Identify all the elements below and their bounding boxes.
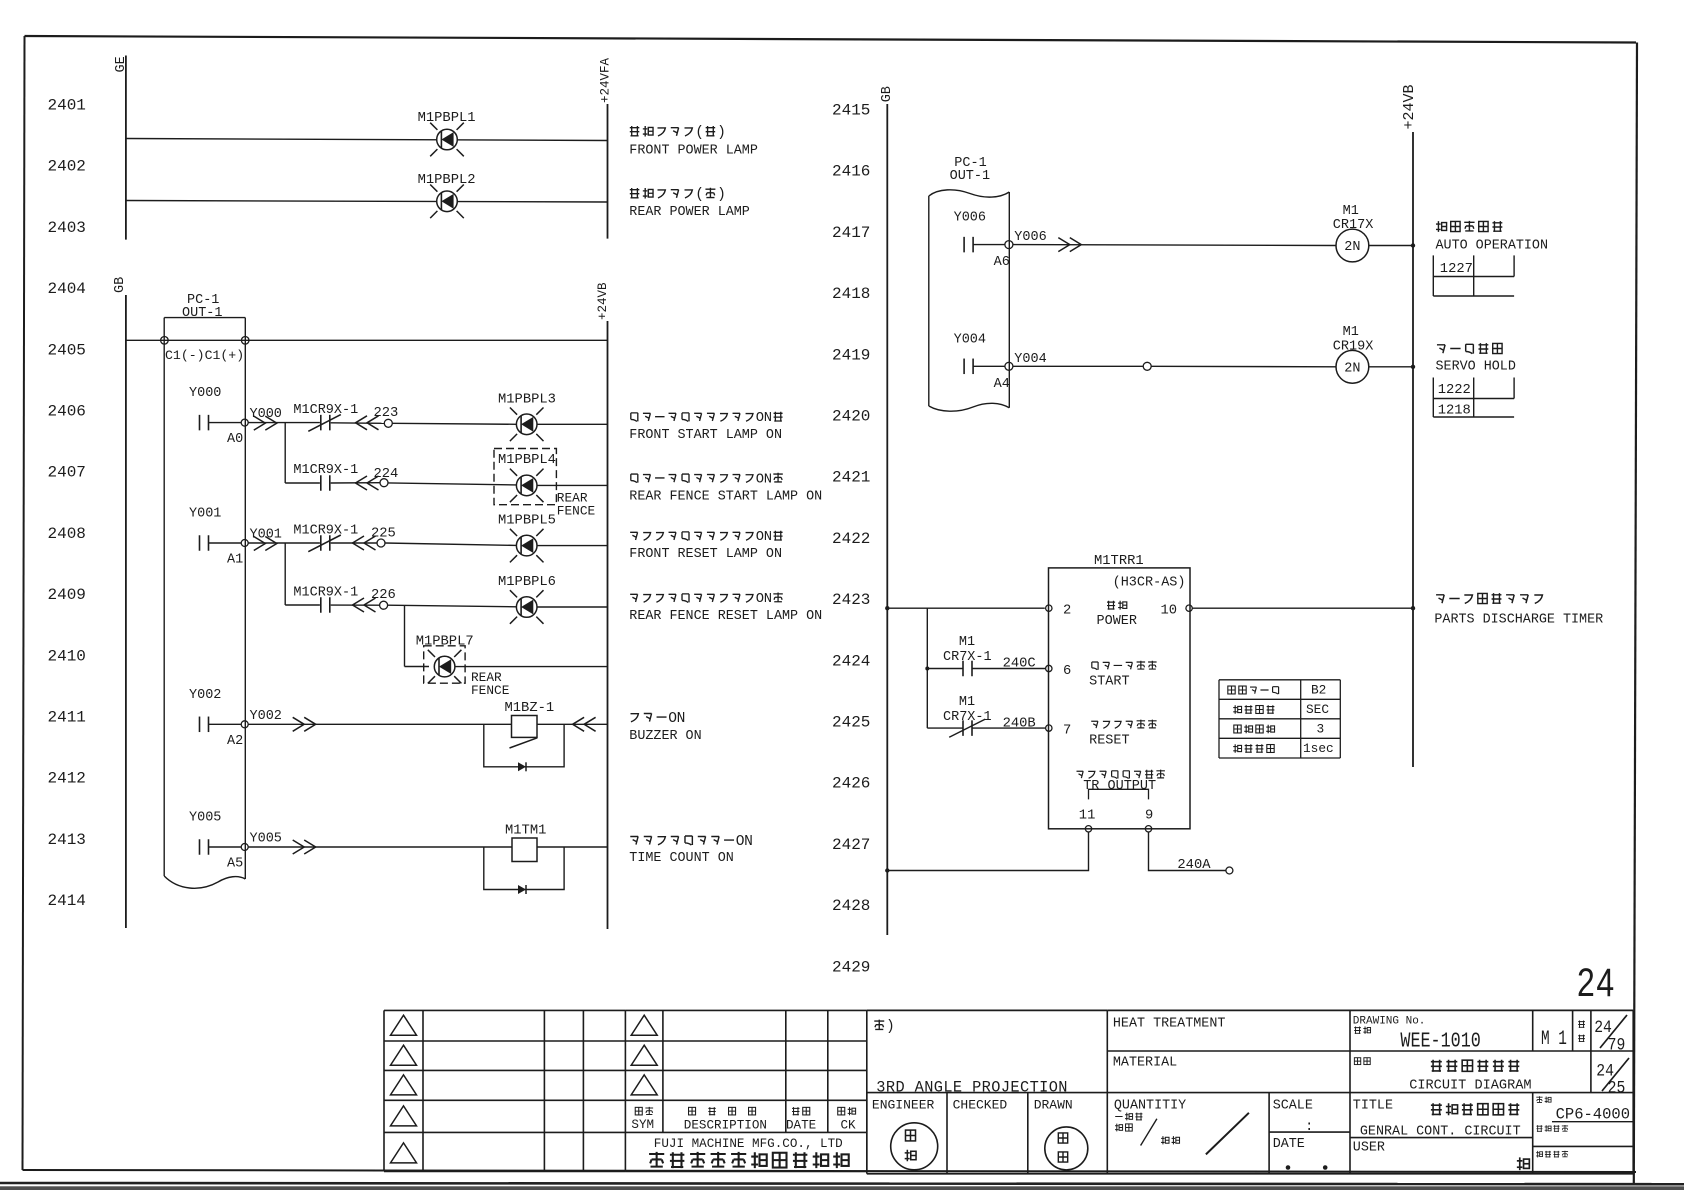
svg-text:25: 25 xyxy=(1608,1077,1626,1098)
rung 2405 wire C1 common xyxy=(126,339,608,341)
caption 2411 buzzer on xyxy=(631,714,639,722)
svg-text:FENCE: FENCE xyxy=(471,683,510,698)
svg-text:Y006: Y006 xyxy=(954,211,986,226)
svg-text:CK: CK xyxy=(841,1119,857,1133)
svg-text:DESCRIPTION: DESCRIPTION xyxy=(684,1119,767,1133)
svg-text:2407: 2407 xyxy=(48,464,86,482)
svg-text:CP6-4000: CP6-4000 xyxy=(1556,1106,1630,1124)
wire 224 to lamp xyxy=(388,483,516,485)
rail +24VFA vertical xyxy=(607,104,609,239)
svg-text:2412: 2412 xyxy=(48,770,86,788)
rail GB right vertical xyxy=(886,104,888,935)
branch wire 2423 to 2425 xyxy=(926,608,928,728)
svg-text:Y005: Y005 xyxy=(250,832,282,847)
svg-text:M1PBPL6: M1PBPL6 xyxy=(498,575,556,590)
svg-text:M1PBPL5: M1PBPL5 xyxy=(498,514,556,529)
svg-text:GB: GB xyxy=(880,86,895,102)
svg-text:2410: 2410 xyxy=(48,647,86,665)
arrow and terminal 223 xyxy=(356,416,368,430)
svg-text:223: 223 xyxy=(374,406,399,421)
junction terminal on 2419 xyxy=(1143,362,1151,370)
svg-text:2422: 2422 xyxy=(832,530,870,548)
svg-text:FRONT START LAMP ON: FRONT START LAMP ON xyxy=(629,428,782,443)
junction dots on rails xyxy=(1411,243,1415,247)
caption servo hold xyxy=(1437,345,1445,353)
svg-text:11: 11 xyxy=(1079,809,1096,824)
svg-text:N: N xyxy=(677,711,686,727)
branch wire 2406 to 2407 xyxy=(284,423,286,483)
svg-text:CHECKED: CHECKED xyxy=(953,1097,1008,1112)
svg-text:SYM: SYM xyxy=(631,1118,654,1132)
svg-text:M1CR9X-1: M1CR9X-1 xyxy=(293,403,358,418)
svg-text:2N: 2N xyxy=(1344,361,1360,376)
svg-text:QUANTITIY: QUANTITIY xyxy=(1114,1098,1186,1113)
svg-text:DATE: DATE xyxy=(786,1119,816,1133)
svg-text:PARTS DISCHARGE TIMER: PARTS DISCHARGE TIMER xyxy=(1434,613,1603,628)
svg-text:A6: A6 xyxy=(994,255,1010,270)
cell kisyu CP6-4000 xyxy=(1536,1096,1542,1102)
engineer checked drawn cells xyxy=(946,1093,948,1174)
svg-text:TITLE: TITLE xyxy=(1353,1098,1393,1113)
svg-text:2: 2 xyxy=(1063,604,1071,619)
rung 2423 wire GB to timer pin2 xyxy=(887,607,1045,609)
caption 2401 power lamp front xyxy=(630,126,640,136)
svg-text:A1: A1 xyxy=(227,553,243,568)
arrow and terminal 225 xyxy=(353,536,365,550)
svg-text:240B: 240B xyxy=(1003,717,1036,732)
svg-text:2416: 2416 xyxy=(832,163,870,181)
svg-text:2427: 2427 xyxy=(832,836,870,854)
svg-text:TIME COUNT ON: TIME COUNT ON xyxy=(629,851,733,866)
svg-text:2413: 2413 xyxy=(48,831,86,849)
svg-text:GB: GB xyxy=(113,277,128,293)
svg-text:240C: 240C xyxy=(1003,657,1036,672)
arrows on 2411 xyxy=(293,717,305,731)
svg-text:M1CR9X-1: M1CR9X-1 xyxy=(293,524,358,539)
timer parameter table xyxy=(1219,679,1340,681)
lamp M1PBPL4 in dashed box xyxy=(494,449,556,505)
svg-text:A4: A4 xyxy=(994,377,1010,392)
svg-text:RESET: RESET xyxy=(1089,734,1130,749)
svg-text:M1PBPL1: M1PBPL1 xyxy=(418,111,476,126)
drawn stamp xyxy=(1045,1127,1088,1170)
svg-text:2429: 2429 xyxy=(832,958,870,976)
svg-text:M1TM1: M1TM1 xyxy=(505,824,546,839)
arrow 2417 xyxy=(1058,238,1070,252)
svg-text:2423: 2423 xyxy=(832,591,870,609)
svg-text:A2: A2 xyxy=(227,734,243,749)
svg-text:M1: M1 xyxy=(959,635,975,650)
svg-text:Y000: Y000 xyxy=(250,407,282,422)
svg-text:CR7X-1: CR7X-1 xyxy=(943,710,992,725)
svg-text:Y004: Y004 xyxy=(1014,352,1046,367)
rung 2406 wire xyxy=(248,422,320,424)
caption parts discharge timer xyxy=(1436,595,1444,603)
svg-text:(: ( xyxy=(695,187,704,203)
svg-text:N: N xyxy=(764,410,772,426)
svg-text:): ) xyxy=(717,125,726,141)
svg-text:START: START xyxy=(1089,675,1130,690)
caption 2409 rear fence reset lamp on xyxy=(630,594,637,602)
svg-text:FRONT POWER LAMP: FRONT POWER LAMP xyxy=(629,143,758,158)
svg-text:FRONT RESET LAMP ON: FRONT RESET LAMP ON xyxy=(629,547,782,562)
rung 2424 wire xyxy=(927,668,962,670)
svg-text:2403: 2403 xyxy=(48,219,86,237)
bypass loop with diode 2413 xyxy=(484,847,564,890)
pin C1(-) xyxy=(161,337,169,345)
caption 2406 front start lamp on xyxy=(631,413,638,422)
svg-text:M1CR9X-1: M1CR9X-1 xyxy=(293,463,358,478)
wire pin11 to GB rail xyxy=(887,832,1088,871)
svg-text:(H3CR-AS): (H3CR-AS) xyxy=(1113,576,1186,591)
svg-text:2405: 2405 xyxy=(48,341,86,359)
caption 2413 time count on xyxy=(630,836,638,844)
rung 2417 wire xyxy=(1013,244,1336,247)
svg-text:79: 79 xyxy=(1608,1034,1626,1055)
rung 2410 wire xyxy=(405,666,430,668)
svg-text:M1PBPL3: M1PBPL3 xyxy=(498,393,556,408)
svg-text:POWER: POWER xyxy=(1097,614,1138,629)
svg-text:2428: 2428 xyxy=(832,897,870,915)
svg-text:2419: 2419 xyxy=(832,346,870,364)
svg-text:Y002: Y002 xyxy=(250,709,282,724)
svg-text:2426: 2426 xyxy=(832,775,870,793)
pin C1(+) xyxy=(241,337,249,345)
svg-text:SERVO HOLD: SERVO HOLD xyxy=(1436,360,1516,375)
svg-text:M1PBPL4: M1PBPL4 xyxy=(498,453,556,468)
caption auto operation xyxy=(1436,221,1447,232)
svg-text:Y001: Y001 xyxy=(189,507,221,522)
svg-text:2420: 2420 xyxy=(832,408,870,426)
svg-text:SEC: SEC xyxy=(1306,702,1329,717)
svg-text:M1PBPL2: M1PBPL2 xyxy=(418,173,476,188)
cell seisan bango xyxy=(1536,1151,1542,1158)
cell bunrui bango xyxy=(1536,1125,1542,1132)
svg-text:CR7X-1: CR7X-1 xyxy=(943,650,992,665)
svg-text:WEE-1010: WEE-1010 xyxy=(1400,1029,1480,1054)
rung 2411 wire xyxy=(248,723,607,725)
svg-text:GENRAL CONT. CIRCUIT: GENRAL CONT. CIRCUIT xyxy=(1360,1125,1521,1140)
timer pin 6 start xyxy=(1046,665,1052,671)
svg-text:(: ( xyxy=(695,125,704,141)
svg-text:2414: 2414 xyxy=(48,892,86,910)
svg-text:A0: A0 xyxy=(227,432,243,447)
wire 226 to lamp xyxy=(388,605,517,607)
svg-text:3: 3 xyxy=(1317,722,1325,737)
rung 2419 wire xyxy=(1013,365,1143,367)
svg-text:USER: USER xyxy=(1353,1141,1385,1156)
svg-text:CIRCUIT DIAGRAM: CIRCUIT DIAGRAM xyxy=(1409,1079,1531,1094)
branch wire 2409 to 2410 xyxy=(404,605,406,666)
svg-text:2421: 2421 xyxy=(832,469,870,487)
svg-text:Y002: Y002 xyxy=(189,688,221,703)
svg-text:2404: 2404 xyxy=(48,280,86,298)
svg-text:1sec: 1sec xyxy=(1303,741,1334,756)
svg-text:A5: A5 xyxy=(227,857,243,872)
svg-text:2401: 2401 xyxy=(48,97,86,115)
rung 2401 wire xyxy=(126,139,608,141)
wire 225 to lamp xyxy=(385,543,516,545)
svg-text:REAR POWER LAMP: REAR POWER LAMP xyxy=(629,205,750,220)
svg-text:DATE: DATE xyxy=(1273,1137,1305,1152)
cross reference table 1222/1218 xyxy=(1432,378,1434,418)
svg-text:10: 10 xyxy=(1161,604,1178,619)
svg-text:C1(-)C1(+): C1(-)C1(+) xyxy=(165,348,244,363)
rail GE vertical xyxy=(125,56,127,240)
svg-text:M 1: M 1 xyxy=(1541,1028,1567,1051)
svg-text:1222: 1222 xyxy=(1438,383,1471,398)
svg-text:M1BZ-1: M1BZ-1 xyxy=(505,701,555,716)
arrow and terminal 224 xyxy=(356,476,368,490)
svg-text:2418: 2418 xyxy=(832,285,870,303)
main title block grid xyxy=(1107,1009,1633,1011)
svg-text:Y006: Y006 xyxy=(1014,230,1046,245)
svg-text:Y000: Y000 xyxy=(189,386,221,401)
svg-text:N: N xyxy=(764,529,772,545)
bypass loop with diode 2411 xyxy=(484,724,564,767)
caption 2407 rear fence start lamp on xyxy=(631,474,638,483)
rung 2408 wire xyxy=(248,542,320,544)
arrow and terminal 226 xyxy=(353,598,365,612)
svg-text:MATERIAL: MATERIAL xyxy=(1113,1055,1177,1070)
svg-text:OUT-1: OUT-1 xyxy=(182,306,223,321)
svg-text:BUZZER ON: BUZZER ON xyxy=(629,729,701,744)
svg-text:OUT-1: OUT-1 xyxy=(950,169,991,184)
svg-text:): ) xyxy=(717,187,726,203)
revision header CK xyxy=(838,1107,845,1115)
svg-text:2408: 2408 xyxy=(48,525,86,543)
svg-text:AUTO OPERATION: AUTO OPERATION xyxy=(1436,239,1549,254)
svg-text:1218: 1218 xyxy=(1438,404,1471,419)
rail GB left vertical xyxy=(125,295,127,928)
svg-text:FENCE: FENCE xyxy=(557,504,596,519)
svg-text:2417: 2417 xyxy=(832,224,870,242)
rung 2402 wire xyxy=(126,201,608,203)
timer pin 7 reset xyxy=(1046,725,1052,731)
svg-text:+24VB: +24VB xyxy=(1401,84,1418,129)
svg-text:7: 7 xyxy=(1063,724,1071,739)
svg-text:2402: 2402 xyxy=(48,158,86,176)
svg-text:2425: 2425 xyxy=(832,714,870,732)
svg-text:2415: 2415 xyxy=(832,102,870,120)
svg-text:Y005: Y005 xyxy=(189,811,221,826)
svg-text:Y001: Y001 xyxy=(250,528,282,543)
timer pin 2 power xyxy=(1046,605,1052,611)
svg-text:DRAWN: DRAWN xyxy=(1034,1097,1073,1112)
svg-text:9: 9 xyxy=(1145,809,1153,824)
svg-text:N: N xyxy=(744,834,753,850)
engineer stamp xyxy=(891,1123,938,1170)
svg-text:240A: 240A xyxy=(1177,858,1211,873)
svg-text:M1CR9X-1: M1CR9X-1 xyxy=(293,586,358,601)
svg-text:6: 6 xyxy=(1063,664,1071,679)
svg-text:M1: M1 xyxy=(1343,204,1359,219)
svg-text:HEAT TREATMENT: HEAT TREATMENT xyxy=(1113,1017,1226,1032)
revision table left xyxy=(384,1009,625,1011)
svg-text:M1PBPL7: M1PBPL7 xyxy=(416,635,474,650)
wire 223 to lamp xyxy=(392,423,516,424)
svg-text:DRAWING No.: DRAWING No. xyxy=(1353,1016,1426,1028)
notes and projection cell xyxy=(867,1009,1108,1011)
wire pin9 to terminal 240A xyxy=(1149,832,1226,871)
svg-text::: : xyxy=(1305,1119,1313,1135)
cross reference table 1227 xyxy=(1432,255,1434,296)
arrow on 2413 xyxy=(293,840,305,854)
svg-text:2406: 2406 xyxy=(48,403,86,421)
rail +24VB right vertical xyxy=(1412,132,1414,767)
rung 2413 wire xyxy=(248,846,607,848)
cell title CIRCUIT DIAGRAM xyxy=(1354,1058,1360,1065)
svg-text:+24VFA: +24VFA xyxy=(599,57,613,103)
svg-text:SCALE: SCALE xyxy=(1273,1098,1313,1113)
svg-text:24: 24 xyxy=(1577,960,1616,1005)
rung 2425 wire xyxy=(927,727,962,729)
timer transistor output xyxy=(1077,771,1084,778)
svg-text:2409: 2409 xyxy=(48,586,86,604)
svg-text:1227: 1227 xyxy=(1440,262,1473,277)
svg-text:REAR FENCE RESET LAMP ON: REAR FENCE RESET LAMP ON xyxy=(629,609,822,624)
revision triangles right xyxy=(631,1015,657,1035)
revision header DATE xyxy=(792,1107,799,1115)
svg-text:M1: M1 xyxy=(959,695,975,710)
rung 2409 wire xyxy=(285,604,320,606)
svg-text:3RD ANGLE PROJECTION: 3RD ANGLE PROJECTION xyxy=(876,1078,1068,1096)
svg-text:2411: 2411 xyxy=(48,709,86,727)
svg-text:M1TRR1: M1TRR1 xyxy=(1094,554,1144,569)
svg-text:+24VB: +24VB xyxy=(596,282,610,320)
lamp M1PBPL7 in dashed box xyxy=(424,646,465,683)
revision triangles left xyxy=(391,1015,417,1035)
drawing frame border xyxy=(25,36,1637,43)
svg-text:N: N xyxy=(764,471,772,487)
svg-text:2424: 2424 xyxy=(832,652,870,670)
svg-text:): ) xyxy=(886,1019,895,1035)
revision header SYM xyxy=(635,1107,642,1115)
rail +24VB left vertical xyxy=(607,321,609,929)
caption 2402 power lamp rear xyxy=(630,188,640,198)
svg-text:M1: M1 xyxy=(1343,325,1359,340)
branch wire 2408 to 2409 xyxy=(284,543,286,605)
svg-text:REAR FENCE START LAMP ON: REAR FENCE START LAMP ON xyxy=(629,489,822,504)
svg-text:ENGINEER: ENGINEER xyxy=(872,1097,935,1112)
revision table right xyxy=(625,1009,866,1011)
svg-text:N: N xyxy=(764,591,772,607)
revision header DESCRIPTION xyxy=(689,1107,696,1115)
page fraction 24/79 xyxy=(1578,1020,1585,1027)
svg-text:Y004: Y004 xyxy=(954,332,986,347)
caption 2408 front reset lamp on xyxy=(630,532,637,540)
svg-text:B2: B2 xyxy=(1311,683,1326,698)
svg-text:FUJI MACHINE MFG.CO., LTD: FUJI MACHINE MFG.CO., LTD xyxy=(654,1137,843,1151)
bottom scan edge band xyxy=(0,1183,1684,1184)
svg-text:TR OUTPUT: TR OUTPUT xyxy=(1083,779,1156,794)
rung 2407 wire xyxy=(285,482,320,484)
svg-text:2N: 2N xyxy=(1344,240,1360,255)
